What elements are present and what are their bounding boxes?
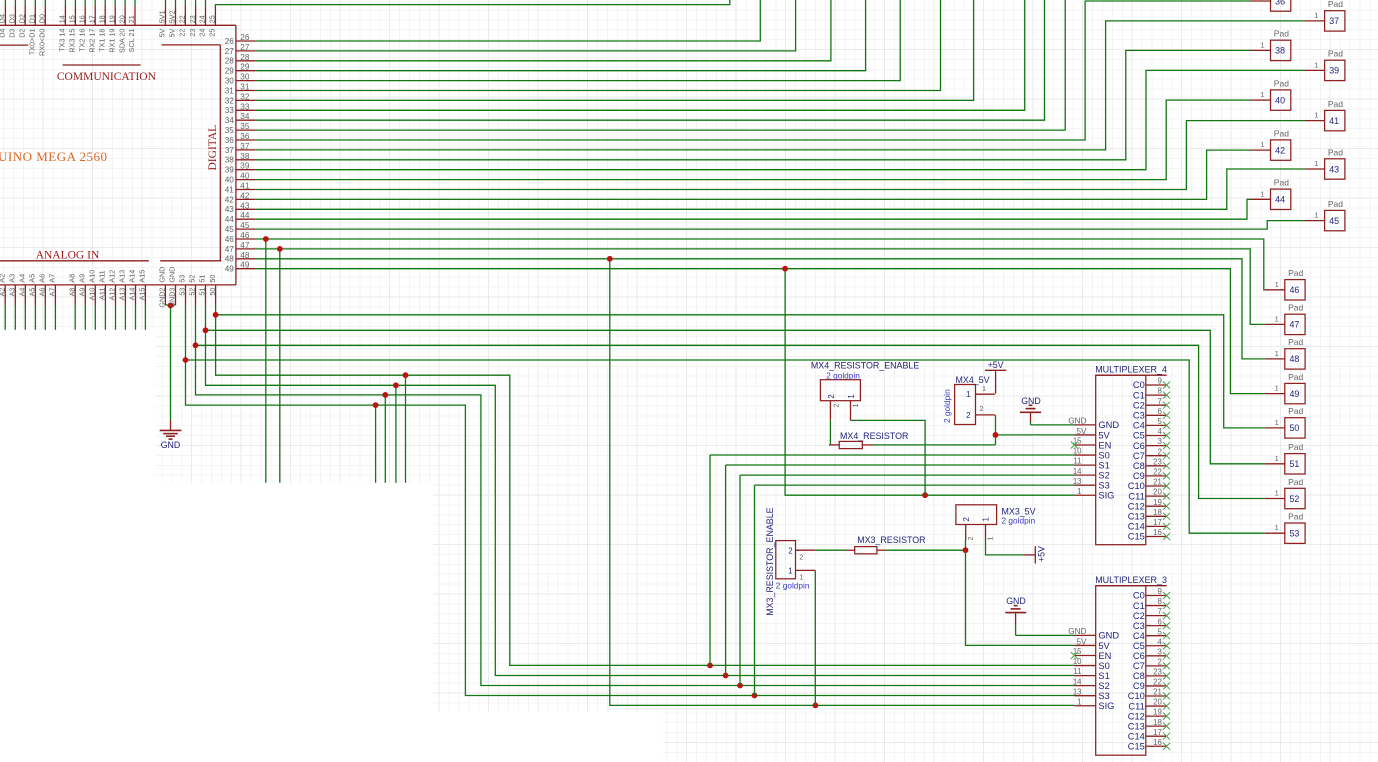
svg-text:Pad: Pad — [1328, 0, 1343, 9]
svg-text:8: 8 — [1157, 597, 1161, 606]
svg-text:D0: D0 — [38, 14, 47, 23]
svg-text:48: 48 — [1289, 354, 1299, 364]
svg-text:SIG: SIG — [1098, 491, 1114, 501]
svg-text:GND: GND — [1021, 396, 1041, 406]
svg-text:Pad: Pad — [1288, 268, 1303, 278]
svg-text:C11: C11 — [1128, 701, 1144, 711]
wire MUX4 5V net — [995, 415, 997, 445]
svg-text:RX1 19: RX1 19 — [107, 29, 116, 53]
wire MX3 enable pin2 to resistor — [815, 549, 846, 551]
wire MUX3 GND net — [1015, 624, 1017, 636]
svg-text:C0: C0 — [1133, 591, 1145, 601]
pad PAD37 — [1305, 0, 1345, 31]
svg-text:1: 1 — [986, 537, 995, 541]
ground symbol GND (mega) — [160, 420, 182, 450]
svg-text:32: 32 — [225, 96, 235, 105]
svg-text:3: 3 — [1157, 437, 1161, 446]
svg-text:Pad: Pad — [1288, 477, 1303, 487]
svg-text:27: 27 — [225, 47, 235, 56]
svg-text:16: 16 — [1153, 528, 1162, 537]
wire net 34 (pin 34 to off-screen pad) — [256, 0, 1045, 120]
svg-text:51: 51 — [198, 275, 207, 283]
svg-text:22: 22 — [178, 29, 187, 37]
svg-text:37: 37 — [225, 146, 235, 155]
U1 right pins 26-49 — [236, 40, 256, 42]
svg-text:45: 45 — [225, 225, 235, 234]
svg-text:TX2 16: TX2 16 — [77, 29, 86, 52]
svg-text:50: 50 — [1289, 423, 1299, 433]
pad PAD41 — [1305, 99, 1345, 131]
svg-text:4: 4 — [1157, 427, 1162, 436]
junction net 48 at MX3 enable — [813, 703, 819, 709]
svg-text:36: 36 — [240, 132, 250, 141]
svg-text:47: 47 — [240, 241, 250, 250]
svg-text:RX0<D0: RX0<D0 — [38, 29, 47, 56]
wire net 50 (pin 50 to pad 50, MUX4 S, MUX3 S) — [216, 305, 1075, 665]
junction net 48 branch — [607, 256, 613, 262]
wire net 48 (pin 48 to pad 48 and MUX3 SIG) — [256, 259, 1265, 359]
svg-text:1: 1 — [1260, 90, 1264, 99]
svg-text:SDA 20: SDA 20 — [117, 29, 126, 53]
svg-text:13: 13 — [1073, 687, 1082, 696]
junction net 49 branch — [782, 266, 788, 272]
svg-text:17: 17 — [1153, 518, 1162, 527]
svg-text:1: 1 — [1260, 40, 1264, 49]
svg-text:A7: A7 — [48, 288, 57, 297]
svg-text:A9: A9 — [78, 274, 87, 283]
svg-text:S0: S0 — [1098, 450, 1109, 460]
svg-text:A9: A9 — [78, 288, 87, 297]
svg-text:5V: 5V — [1076, 427, 1087, 436]
junction MUX4 5V — [993, 432, 999, 438]
svg-text:31: 31 — [240, 83, 250, 92]
svg-text:24: 24 — [198, 29, 207, 37]
svg-text:11: 11 — [1073, 457, 1081, 466]
wire MX3 5V net to MUX3 — [966, 550, 1075, 645]
svg-text:1: 1 — [1260, 140, 1264, 149]
junction net 49 at MX4 enable — [922, 492, 928, 498]
svg-text:18: 18 — [1153, 718, 1162, 727]
svg-text:Pad: Pad — [1274, 78, 1289, 88]
svg-text:20: 20 — [1153, 698, 1162, 707]
pad PAD48 — [1265, 337, 1305, 369]
svg-text:14: 14 — [58, 15, 67, 23]
svg-text:25: 25 — [208, 15, 217, 23]
wire net 41 (pin 41 to pad 41) — [256, 121, 1305, 190]
svg-text:D1: D1 — [28, 14, 37, 23]
svg-text:33: 33 — [225, 106, 235, 115]
wires analog pins A2-A15 (cut by unredrawn area) — [4, 305, 6, 330]
wire mega GND pins to ground — [165, 304, 175, 306]
wire net 45 (pin 45 to pad 45) — [256, 221, 1305, 230]
svg-text:1: 1 — [982, 517, 991, 521]
svg-text:50: 50 — [208, 275, 217, 283]
svg-text:D4: D4 — [0, 29, 7, 38]
svg-text:9: 9 — [1157, 377, 1161, 386]
svg-text:2 goldpin: 2 goldpin — [826, 371, 860, 381]
svg-text:2: 2 — [966, 411, 970, 420]
svg-text:C7: C7 — [1133, 451, 1145, 461]
svg-text:35: 35 — [240, 122, 250, 131]
svg-text:20: 20 — [1153, 488, 1162, 497]
svg-text:D2: D2 — [17, 29, 26, 38]
svg-text:2 goldpin: 2 goldpin — [1002, 515, 1036, 525]
svg-text:Pad: Pad — [1328, 147, 1343, 157]
svg-text:C6: C6 — [1133, 441, 1145, 451]
svg-text:C12: C12 — [1128, 501, 1145, 511]
connector J3 MX3_RESISTOR_ENABLE (2 goldpin) — [765, 507, 815, 615]
svg-text:C10: C10 — [1128, 481, 1145, 491]
svg-text:5V: 5V — [1098, 430, 1110, 440]
junction net 53 cut branch — [373, 402, 379, 408]
svg-text:1: 1 — [1077, 487, 1081, 496]
svg-text:21: 21 — [1153, 688, 1162, 697]
svg-text:1: 1 — [1275, 384, 1279, 393]
svg-text:C6: C6 — [1133, 651, 1145, 661]
wire MX3_5V pin2 down — [965, 540, 967, 550]
svg-text:Pad: Pad — [1288, 337, 1303, 347]
svg-text:S2: S2 — [1098, 470, 1109, 480]
svg-text:A14: A14 — [128, 288, 137, 301]
svg-text:TX0>D1: TX0>D1 — [28, 29, 37, 56]
wire net 25 along top edge — [215, 0, 729, 6]
svg-text:Pad: Pad — [1274, 178, 1289, 188]
svg-text:38: 38 — [240, 152, 250, 161]
pad PAD46 — [1265, 268, 1305, 300]
svg-text:45: 45 — [240, 221, 250, 230]
junction MX3 5V net — [963, 547, 969, 553]
svg-text:5V: 5V — [158, 28, 167, 37]
svg-text:32: 32 — [240, 92, 250, 101]
svg-text:8: 8 — [1157, 387, 1161, 396]
svg-text:D3: D3 — [8, 14, 17, 23]
svg-text:41: 41 — [240, 182, 250, 191]
svg-text:30: 30 — [225, 77, 235, 86]
wire net 40 (pin 40 to pad 40) — [256, 100, 1251, 180]
svg-text:2 goldpin: 2 goldpin — [776, 581, 810, 591]
svg-text:SCL 21: SCL 21 — [127, 29, 136, 53]
svg-text:53: 53 — [178, 288, 187, 296]
svg-text:18: 18 — [1153, 508, 1162, 517]
junction mega GND — [168, 303, 174, 309]
svg-text:2: 2 — [788, 546, 792, 555]
svg-text:GND: GND — [158, 267, 167, 283]
svg-text:A2: A2 — [0, 288, 6, 297]
svg-text:1: 1 — [1275, 523, 1279, 532]
svg-text:A11: A11 — [98, 270, 107, 282]
svg-text:D4: D4 — [0, 14, 7, 23]
wire net 30 (pin 30 to off-screen pad) — [256, 0, 901, 81]
svg-text:RX2 17: RX2 17 — [87, 29, 96, 53]
MULTIPLEXER_4 left pins — [1068, 417, 1119, 501]
svg-text:D3: D3 — [8, 29, 17, 38]
pad PAD49 — [1265, 372, 1305, 404]
svg-text:C7: C7 — [1133, 661, 1145, 671]
svg-text:Pad: Pad — [1288, 372, 1303, 382]
svg-text:16: 16 — [1153, 738, 1162, 747]
svg-text:A11: A11 — [98, 288, 107, 300]
junction net 51 cut branch — [393, 382, 399, 388]
svg-text:Pad: Pad — [1274, 29, 1289, 39]
svg-text:36: 36 — [225, 136, 235, 145]
wire MX4 enable pin2 to resistor — [829, 420, 831, 445]
svg-text:53: 53 — [178, 275, 187, 283]
svg-text:38: 38 — [1275, 46, 1285, 56]
svg-text:A5: A5 — [28, 288, 37, 297]
junction net 51 at MUX3 S row — [723, 673, 729, 679]
svg-text:C4: C4 — [1133, 421, 1145, 431]
svg-text:39: 39 — [1329, 66, 1339, 76]
svg-text:C5: C5 — [1133, 431, 1145, 441]
svg-text:41: 41 — [225, 185, 235, 194]
svg-text:1: 1 — [1275, 314, 1279, 323]
svg-text:23: 23 — [1153, 457, 1162, 466]
svg-text:31: 31 — [225, 86, 235, 95]
svg-text:47: 47 — [225, 245, 235, 254]
svg-text:1: 1 — [1314, 11, 1318, 20]
junction net 52 pad branch — [193, 342, 199, 348]
svg-text:MX4_RESISTOR: MX4_RESISTOR — [840, 431, 908, 441]
svg-text:28: 28 — [240, 53, 250, 62]
svg-text:1: 1 — [847, 394, 856, 398]
svg-text:22: 22 — [1153, 678, 1162, 687]
pad PAD47 — [1265, 303, 1305, 335]
wire net 51 (pin 51 to pad 51, MUX4 S, MUX3 S) — [206, 305, 1075, 676]
pad PAD36 — [1251, 0, 1291, 11]
ground symbol GND (MUX3) — [1005, 596, 1026, 624]
wire MX3 enable pin1 to MUX3 SIG — [814, 570, 816, 705]
svg-text:5V2: 5V2 — [168, 10, 177, 23]
svg-text:33: 33 — [240, 102, 250, 111]
svg-text:6: 6 — [1157, 407, 1161, 416]
svg-text:Pad: Pad — [1288, 442, 1303, 452]
svg-text:42: 42 — [1275, 145, 1285, 155]
svg-text:C9: C9 — [1133, 471, 1145, 481]
svg-text:17: 17 — [1153, 728, 1162, 737]
svg-text:51: 51 — [1289, 459, 1299, 469]
svg-text:C3: C3 — [1133, 621, 1145, 631]
svg-text:44: 44 — [225, 215, 235, 224]
svg-text:22: 22 — [178, 15, 187, 23]
wire net 38 (pin 38 to pad 38) — [256, 50, 1251, 159]
pad PAD39 — [1305, 49, 1345, 81]
wire net 53 MUX4 S row — [755, 484, 1075, 486]
svg-text:38: 38 — [225, 156, 235, 165]
svg-text:MULTIPLEXER_3: MULTIPLEXER_3 — [1095, 575, 1167, 585]
svg-text:19: 19 — [1153, 498, 1162, 507]
svg-text:42: 42 — [240, 191, 250, 200]
junction net 47 — [277, 246, 283, 252]
svg-text:21: 21 — [1153, 478, 1162, 487]
svg-text:1: 1 — [982, 384, 986, 393]
svg-text:COMMUNICATION: COMMUNICATION — [57, 71, 157, 83]
svg-text:S0: S0 — [1098, 661, 1109, 671]
svg-text:Pad: Pad — [1288, 406, 1303, 416]
svg-text:Pad: Pad — [1288, 303, 1303, 313]
svg-text:1: 1 — [1275, 454, 1279, 463]
svg-text:48: 48 — [240, 251, 250, 260]
wire net 46 (pin 46 to pad 46, with cut branch) — [256, 239, 1265, 290]
svg-text:1: 1 — [966, 390, 970, 399]
wire net 52 (pin 52 to pad 52, MUX4 S, MUX3 S) — [196, 305, 1075, 686]
svg-text:EN: EN — [1098, 651, 1111, 661]
svg-text:RX3 15: RX3 15 — [68, 29, 77, 53]
power symbol +5V (MX3, rotated) — [1024, 546, 1047, 564]
svg-text:GND: GND — [168, 267, 177, 283]
svg-text:2: 2 — [1157, 657, 1161, 666]
svg-text:47: 47 — [1289, 320, 1299, 330]
svg-text:23: 23 — [188, 15, 197, 23]
svg-text:3: 3 — [1157, 647, 1161, 656]
svg-text:A10: A10 — [88, 270, 97, 283]
svg-text:26: 26 — [225, 37, 235, 46]
pad PAD38 — [1251, 29, 1291, 61]
svg-text:1: 1 — [1275, 349, 1279, 358]
pad PAD43 — [1305, 147, 1345, 179]
svg-text:DIGITAL: DIGITAL — [207, 125, 219, 171]
wire net 52 MUX4 S row — [740, 474, 1075, 476]
svg-text:A12: A12 — [108, 270, 117, 283]
svg-text:49: 49 — [240, 261, 250, 270]
svg-text:C14: C14 — [1128, 522, 1145, 532]
svg-text:C1: C1 — [1133, 390, 1145, 400]
junction net 53 pad branch — [183, 357, 189, 363]
svg-text:C8: C8 — [1133, 461, 1145, 471]
svg-text:MULTIPLEXER_4: MULTIPLEXER_4 — [1095, 365, 1167, 375]
svg-text:GND: GND — [1098, 631, 1119, 641]
svg-text:A2: A2 — [0, 274, 6, 283]
svg-text:C15: C15 — [1128, 532, 1145, 542]
junction net 50 at MUX3 S row — [707, 663, 713, 669]
svg-text:C2: C2 — [1133, 400, 1145, 410]
wire net 37 (pin 37 to pad 37) — [256, 21, 1305, 150]
svg-text:21: 21 — [127, 15, 136, 23]
svg-text:C5: C5 — [1133, 641, 1145, 651]
svg-text:1: 1 — [1275, 418, 1279, 427]
svg-text:40: 40 — [225, 176, 235, 185]
svg-text:37: 37 — [240, 142, 250, 151]
svg-text:53: 53 — [1289, 529, 1299, 539]
svg-text:2 goldpin: 2 goldpin — [942, 389, 952, 423]
svg-text:GND: GND — [1068, 627, 1086, 636]
unredrawn white region bottom-left — [0, 330, 155, 762]
svg-text:A3: A3 — [8, 274, 17, 283]
svg-text:A8: A8 — [67, 288, 76, 297]
svg-text:46: 46 — [225, 235, 235, 244]
svg-text:S2: S2 — [1098, 681, 1109, 691]
svg-text:37: 37 — [1329, 16, 1339, 26]
wire net 47 (pin 47 to pad 47, with cut branch) — [256, 249, 1265, 325]
wire net 27 (pin 27 to off-screen pad) — [256, 0, 796, 51]
svg-text:19: 19 — [1153, 708, 1162, 717]
wire net 36 (pin 36 to pad 36) — [256, 1, 1251, 140]
svg-text:46: 46 — [1289, 285, 1299, 295]
svg-text:C3: C3 — [1133, 411, 1145, 421]
svg-text:44: 44 — [1275, 195, 1285, 205]
svg-text:15: 15 — [68, 15, 77, 23]
svg-text:49: 49 — [1289, 389, 1299, 399]
svg-text:C10: C10 — [1128, 691, 1145, 701]
svg-text:1: 1 — [1077, 697, 1081, 706]
svg-text:GND3: GND3 — [168, 288, 177, 308]
svg-text:14: 14 — [1073, 467, 1082, 476]
svg-text:16: 16 — [77, 15, 86, 23]
svg-text:EN: EN — [1098, 440, 1111, 450]
svg-text:Pad: Pad — [1274, 128, 1289, 138]
svg-text:MX3_RESISTOR: MX3_RESISTOR — [857, 535, 925, 545]
svg-text:A4: A4 — [18, 288, 27, 297]
svg-text:2: 2 — [827, 394, 836, 398]
svg-text:45: 45 — [1329, 216, 1339, 226]
svg-text:C13: C13 — [1128, 512, 1145, 522]
junction net 52 cut branch — [382, 392, 388, 398]
wire net 44 (pin 44 to pad 44) — [256, 199, 1251, 219]
svg-text:C8: C8 — [1133, 671, 1145, 681]
pad PAD51 — [1265, 442, 1305, 474]
junction net 46 — [263, 236, 269, 242]
svg-text:7: 7 — [1157, 607, 1161, 616]
wire MX4 resistor to 5V net — [873, 444, 995, 446]
svg-text:1: 1 — [1260, 189, 1264, 198]
svg-text:C4: C4 — [1133, 631, 1145, 641]
svg-text:GND2: GND2 — [158, 288, 167, 308]
svg-text:A15: A15 — [138, 270, 147, 283]
svg-text:23: 23 — [188, 29, 197, 37]
svg-text:48: 48 — [225, 255, 235, 264]
svg-text:A7: A7 — [48, 274, 57, 283]
svg-text:A8: A8 — [67, 274, 76, 283]
svg-text:GND: GND — [1006, 596, 1026, 606]
svg-text:D2: D2 — [17, 14, 26, 23]
svg-text:A6: A6 — [38, 288, 47, 297]
svg-text:S1: S1 — [1098, 671, 1109, 681]
svg-text:5V1: 5V1 — [158, 10, 167, 23]
svg-text:Pad: Pad — [1328, 49, 1343, 59]
junction net 53 at MUX3 S row — [752, 693, 758, 699]
svg-text:5: 5 — [1157, 417, 1162, 426]
svg-text:46: 46 — [240, 231, 250, 240]
svg-text:A14: A14 — [128, 270, 137, 283]
pad PAD50 — [1265, 406, 1305, 438]
wire net 51 MUX4 S row — [726, 464, 1075, 466]
svg-text:13: 13 — [1073, 477, 1082, 486]
multiplexer MULTIPLEXER_3 body — [1095, 575, 1167, 755]
svg-text:1: 1 — [1275, 280, 1279, 289]
svg-text:1: 1 — [851, 404, 860, 408]
svg-text:39: 39 — [225, 166, 235, 175]
svg-text:28: 28 — [225, 57, 235, 66]
svg-text:43: 43 — [1329, 164, 1339, 174]
svg-text:MX3_RESISTOR_ENABLE: MX3_RESISTOR_ENABLE — [765, 507, 775, 615]
svg-text:6: 6 — [1157, 617, 1161, 626]
U1 bottom pins — [4, 285, 6, 305]
svg-text:7: 7 — [1157, 397, 1161, 406]
svg-text:C13: C13 — [1128, 721, 1145, 731]
svg-text:30: 30 — [240, 73, 250, 82]
svg-text:Pad: Pad — [1328, 99, 1343, 109]
svg-text:4: 4 — [1157, 637, 1162, 646]
svg-text:27: 27 — [240, 43, 250, 52]
svg-text:43: 43 — [240, 201, 250, 210]
svg-text:19: 19 — [107, 15, 116, 23]
svg-text:A12: A12 — [108, 288, 117, 301]
svg-text:36: 36 — [1275, 0, 1285, 6]
wire net 39 (pin 39 to pad 39) — [256, 70, 1305, 169]
MULTIPLEXER_3 right pins C0-C15 — [1128, 587, 1170, 751]
svg-text:35: 35 — [225, 126, 235, 135]
svg-text:TX1 18: TX1 18 — [97, 29, 106, 52]
svg-text:A13: A13 — [118, 270, 127, 283]
